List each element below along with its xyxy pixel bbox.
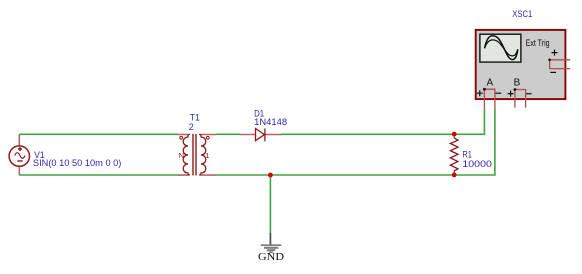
- svg-text:B: B: [514, 77, 521, 88]
- svg-text:N: N: [179, 151, 184, 160]
- channel B plus sign: [508, 91, 514, 97]
- junction node ground tap: [268, 173, 273, 178]
- voltage source V1: [9, 134, 29, 175]
- oscilloscope XSC1: [476, 30, 571, 110]
- scope screen: [480, 34, 521, 62]
- svg-text:XSC1: XSC1: [512, 9, 532, 19]
- svg-text:1: 1: [205, 151, 209, 160]
- value label 1N4148: [254, 117, 287, 127]
- channel A plus sign: [477, 90, 483, 96]
- diode D1: [240, 129, 281, 142]
- ext trig minus sign: [550, 71, 556, 73]
- label GND: [258, 252, 284, 263]
- svg-text:2: 2: [189, 122, 194, 132]
- ext trig pin dot: [548, 59, 551, 62]
- channel A pins: [484, 89, 495, 109]
- label V1: [34, 150, 45, 160]
- junction node R1 top: [452, 132, 457, 137]
- channel A minus sign: [495, 92, 501, 94]
- wire bottom rail T1 to scope channel A-: [216, 109, 495, 175]
- channel B minus sign: [526, 93, 532, 95]
- transformer T1: [178, 134, 216, 176]
- transformer winding label N: [179, 151, 184, 160]
- svg-text:GND: GND: [258, 252, 284, 263]
- svg-text:SIN(0 10 50 10m 0 0): SIN(0 10 50 10m 0 0): [33, 158, 122, 168]
- svg-text:A: A: [487, 77, 494, 88]
- scope body: [476, 30, 566, 99]
- label 2: [189, 122, 194, 132]
- svg-text:Ext Trig: Ext Trig: [526, 38, 550, 48]
- channel B pin dot: [514, 88, 517, 91]
- scope screen sine icon: [485, 36, 518, 60]
- wire T1 to D1: [216, 133, 240, 135]
- wire bottom rail V1 to T1: [19, 174, 178, 176]
- junction node R1 bottom: [452, 173, 457, 178]
- wire to ground: [269, 175, 271, 233]
- label T1: [190, 113, 200, 123]
- value label SIN: [33, 158, 122, 168]
- label R1: [462, 150, 472, 160]
- transformer winding label 1: [205, 151, 209, 160]
- ext trig plus sign: [552, 50, 558, 56]
- svg-text:1N4148: 1N4148: [254, 117, 287, 127]
- svg-text:10000: 10000: [462, 159, 492, 169]
- wire D1 to scope channel A+: [281, 109, 484, 134]
- label D1: [254, 108, 264, 118]
- value label 10000: [462, 159, 492, 169]
- label XSC1: [512, 9, 532, 19]
- wire top rail V1 to T1: [19, 133, 178, 135]
- ground: [261, 233, 282, 252]
- channel B pins: [515, 90, 526, 108]
- channel A pin dot: [483, 88, 486, 91]
- resistor R1: [450, 134, 458, 175]
- ext trig pins: [550, 60, 571, 69]
